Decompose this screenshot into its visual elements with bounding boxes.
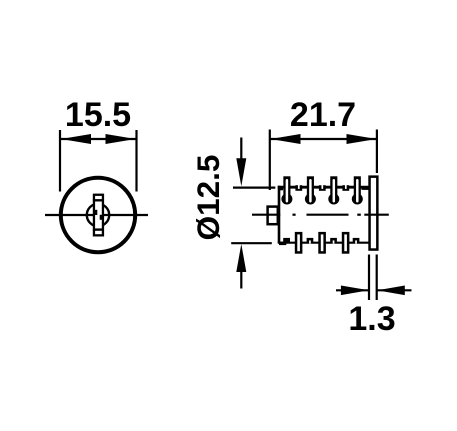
- svg-text:Ø12.5: Ø12.5: [190, 155, 226, 241]
- bottom edge tooth 3: [330, 238, 337, 244]
- keyway right nub: [100, 215, 104, 220]
- bottom pin 1: [295, 232, 303, 254]
- top edge tooth 3: [342, 184, 349, 191]
- side view body top edge: [278, 186, 369, 189]
- front view center line: [45, 214, 148, 216]
- side view body bottom edge: [278, 242, 369, 244]
- top edge tooth 1: [295, 184, 302, 191]
- keyway rectangle: [94, 195, 103, 236]
- keyway left nub: [93, 210, 97, 215]
- keyway upper line: [93, 199, 104, 201]
- side view body left edge: [278, 186, 281, 243]
- top edge step near flange: [362, 187, 370, 190]
- top edge step at left corner: [279, 187, 283, 190]
- dimension line 21.7: [270, 130, 377, 191]
- bottom edge tooth 4: [353, 238, 360, 244]
- cam rectangle: [268, 207, 278, 225]
- top pin 1: [281, 176, 292, 204]
- bottom edge tooth 2: [307, 238, 314, 244]
- front view outer circle: [61, 178, 135, 252]
- svg-text:21.7: 21.7: [290, 96, 356, 134]
- bottom edge tooth 1: [283, 238, 290, 243]
- bottom pin 3: [342, 232, 350, 254]
- bottom edge left corner step: [279, 242, 286, 246]
- top edge tooth 2: [319, 184, 326, 191]
- top pin 4: [352, 176, 363, 204]
- keyway lower line: [93, 228, 104, 230]
- front view plug circle: [87, 204, 109, 226]
- svg-text:15.5: 15.5: [65, 96, 131, 134]
- dimension line 1.3: [336, 255, 412, 301]
- top pin 3: [328, 176, 339, 204]
- dimension line 15.5: [60, 130, 137, 192]
- top pin 2: [305, 176, 316, 204]
- flange rectangle: [370, 177, 378, 250]
- dimension line Ø12.5: [231, 138, 275, 289]
- bottom pin 2: [318, 232, 326, 254]
- svg-text:1.3: 1.3: [348, 300, 395, 338]
- side view center line: [252, 214, 389, 216]
